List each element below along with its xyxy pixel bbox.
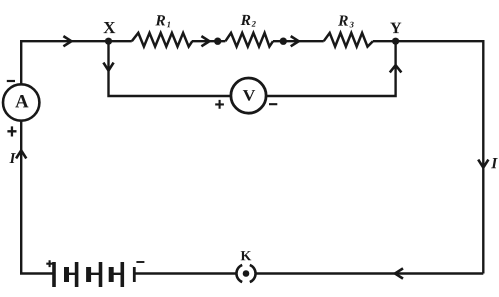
battery minus sign	[136, 261, 144, 263]
label R2	[241, 15, 251, 25]
node X (junction dot)	[105, 38, 112, 45]
battery cell 3 positive plate (long)	[99, 262, 103, 287]
ammeter plus sign	[7, 126, 16, 136]
wire: battery cell 1 to cell 2	[67, 273, 78, 275]
node Y (junction dot)	[392, 38, 399, 45]
voltmeter V	[231, 78, 266, 113]
wire: R1 to R2	[192, 40, 226, 42]
wire: X down to voltmeter left lead	[109, 41, 231, 96]
wire: key to bottom-right corner	[255, 272, 484, 274]
wire: voltmeter right lead up to Y	[267, 41, 396, 96]
wire: R3 to Y to top-right corner and right vertical down	[373, 41, 483, 273]
key K (plug key: broken circle with centre dot)	[236, 265, 255, 282]
label R1	[155, 15, 165, 25]
arrow: branch current below Y (up)	[390, 65, 402, 72]
node: junction dot between R1 and R2	[214, 38, 221, 45]
arrow: branch current below X (down)	[103, 63, 113, 71]
battery cell 4 positive plate (long)	[121, 262, 125, 287]
battery plus sign	[46, 260, 53, 267]
wire: battery to key	[135, 272, 237, 274]
label Y	[390, 23, 401, 33]
label I (right wire current)	[491, 158, 498, 168]
label R3	[338, 15, 348, 25]
resistor R2	[225, 33, 273, 47]
battery cell 1 negative plate (short)	[64, 267, 69, 282]
resistor R3	[324, 33, 373, 47]
ammeter minus sign	[7, 80, 15, 82]
ammeter A	[3, 84, 39, 120]
voltmeter plus sign	[215, 100, 224, 109]
battery cell 2 negative plate (short)	[86, 267, 91, 282]
battery cell 2 positive plate (long)	[75, 262, 79, 287]
wire: R2 to R3	[273, 40, 324, 42]
wire: battery cell 3 to cell 4	[111, 273, 123, 275]
label K	[241, 251, 252, 260]
wire: left vertical lower from ammeter to bottom-left corner to battery	[21, 121, 54, 274]
arrow: current I on left wire (up)	[16, 150, 26, 158]
arrow: current direction on top-left wire (right)	[63, 36, 71, 46]
label I (left wire current)	[9, 153, 15, 163]
arrow: current direction after R1 (right)	[201, 36, 209, 46]
node: junction dot between R2 and R3	[280, 38, 287, 45]
battery cell 3 negative plate (short)	[109, 267, 114, 282]
resistor R1	[132, 33, 193, 47]
arrow: current I on right wire (down)	[478, 160, 488, 168]
label X	[104, 22, 116, 33]
arrow: current direction on bottom wire (left)	[395, 268, 403, 278]
arrow: current direction after R2 junction (right)	[291, 36, 299, 46]
wire: left vertical top + top-left horizontal run to R1	[21, 41, 132, 85]
wire: battery cell 2 to cell 3	[89, 273, 101, 275]
battery cell 4 negative plate (short)	[133, 267, 136, 282]
battery cell 1 positive plate (long)	[52, 262, 56, 287]
voltmeter minus sign	[269, 103, 277, 105]
